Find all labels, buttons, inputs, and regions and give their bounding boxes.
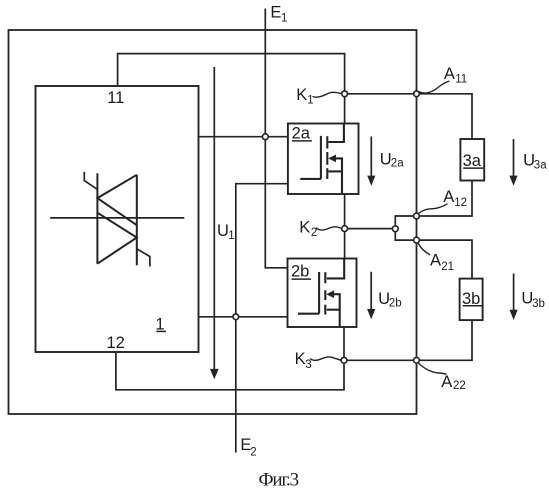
resistor block 3a box [460,139,484,181]
svg-text:A: A [443,188,454,206]
junction node on E1 line (2a gate) [262,134,268,140]
svg-text:U: U [217,222,229,240]
triac upper triangle (apex left) [97,175,136,225]
resistor block 3b box [460,279,483,321]
triac lower triangle (apex right) [97,213,136,264]
svg-text:12: 12 [454,197,467,209]
triac gate hook bottom-right [137,249,150,267]
node K2 [342,226,348,232]
wire A21 to 3b top [417,240,473,279]
node A22 [414,357,420,363]
MOSFET block 2a box [288,124,359,195]
mosfet 2b drain lead [327,259,344,279]
wire 2a source entry left and E2 terminal lead [236,184,288,453]
node A11 [414,91,420,97]
voltage arrow U3a [513,139,515,176]
wire 3b bottom to A22 [417,320,473,360]
jog junction node [392,226,398,232]
mosfet 2a gate lead [300,178,321,180]
wire E1 terminal lead down to 2b gate [265,9,287,268]
mosfet 2a drain lead [328,124,344,143]
svg-text:K: K [296,86,307,104]
mosfet 2a channel segment top [326,136,328,148]
mosfet 2b gate bar [318,272,320,314]
voltage arrow U1 [213,67,215,370]
wire block1 output to 2a gate [199,136,288,138]
svg-text:2: 2 [250,447,256,459]
svg-text:3a: 3a [534,160,547,172]
wire block1 lower output to junction to 2b source entry [199,316,288,318]
svg-text:1: 1 [281,13,287,25]
mosfet 2a body arrow [328,155,336,163]
wire K2 to jog junction [345,228,396,230]
mosfet 2b channel segment middle [324,290,326,300]
wire 2a source to K2 to 2b drain [344,194,346,259]
mosfet 2b gate lead [298,313,319,315]
wire K3 to A22 [344,359,417,361]
svg-text:2a: 2a [391,158,404,170]
leader squiggle K1 [313,92,342,97]
mosfet 2a channel segment middle [326,152,328,165]
mosfet 2b body arrow [326,290,334,298]
voltage arrow U2b [370,272,372,310]
svg-text:Фиг.3: Фиг.3 [259,469,299,490]
svg-text:2a: 2a [292,124,311,142]
mosfet 2b channel segment top [324,272,326,283]
mosfet 2a source and body lead [336,158,342,194]
svg-text:2b: 2b [389,298,402,310]
block 1 box [36,86,199,352]
wire 3a bottom to A12 [417,181,473,216]
svg-text:2b: 2b [291,263,309,281]
wire K1 to A11 [345,93,417,95]
leader squiggle K2 [316,227,342,230]
wire 11 terminal up over to K1 and 2a drain [118,54,345,124]
svg-text:12: 12 [107,334,125,352]
outer frame [9,30,417,414]
wire K3 down and left to 12 terminal of block1 [116,352,344,390]
triac gate hook top-left [84,172,97,190]
junction node on E2 line (2b source) [233,314,239,320]
node K3 [341,357,347,363]
svg-text:3: 3 [305,359,311,371]
voltage arrow U2a [370,137,372,177]
wire A11 to 3a top [417,94,473,139]
svg-text:A: A [441,373,452,391]
svg-text:11: 11 [455,74,467,86]
node A21 [414,237,420,243]
node A12 [414,213,420,219]
leader squiggle A11 [419,81,450,93]
mosfet 2a source contact [328,170,342,172]
svg-text:K: K [299,218,310,236]
mosfet 2b source and body lead [334,294,340,327]
leader squiggle A22 [418,362,447,374]
mosfet 2b channel segment bottom [324,305,326,315]
svg-text:A: A [444,65,455,83]
svg-text:11: 11 [107,89,124,107]
leader squiggle A21 [418,242,430,255]
svg-text:1: 1 [228,230,234,242]
svg-text:2: 2 [311,227,317,239]
triac right anode bar [136,175,138,265]
triac terminal horizontal line [50,217,184,219]
MOSFET block 2b box [288,259,357,328]
node K1 [342,91,348,97]
leader squiggle A12 [418,204,448,215]
svg-text:A: A [430,252,441,270]
mosfet 2a gate bar [320,136,322,179]
mosfet 2b source contact [327,309,340,311]
wire 2b source to K3 [343,327,345,360]
wire jog bracket to A12 and A21 [395,216,416,240]
voltage arrow U3b [513,274,515,311]
mosfet 2a channel segment bottom [326,168,328,179]
svg-text:22: 22 [453,380,466,392]
svg-text:K: K [295,350,306,368]
svg-text:1: 1 [307,94,313,106]
svg-text:3b: 3b [532,298,545,310]
svg-text:E: E [270,3,281,21]
svg-text:21: 21 [441,261,454,273]
leader squiggle K3 [310,357,341,360]
triac symbol in block 1: left cathode bar [96,173,98,263]
